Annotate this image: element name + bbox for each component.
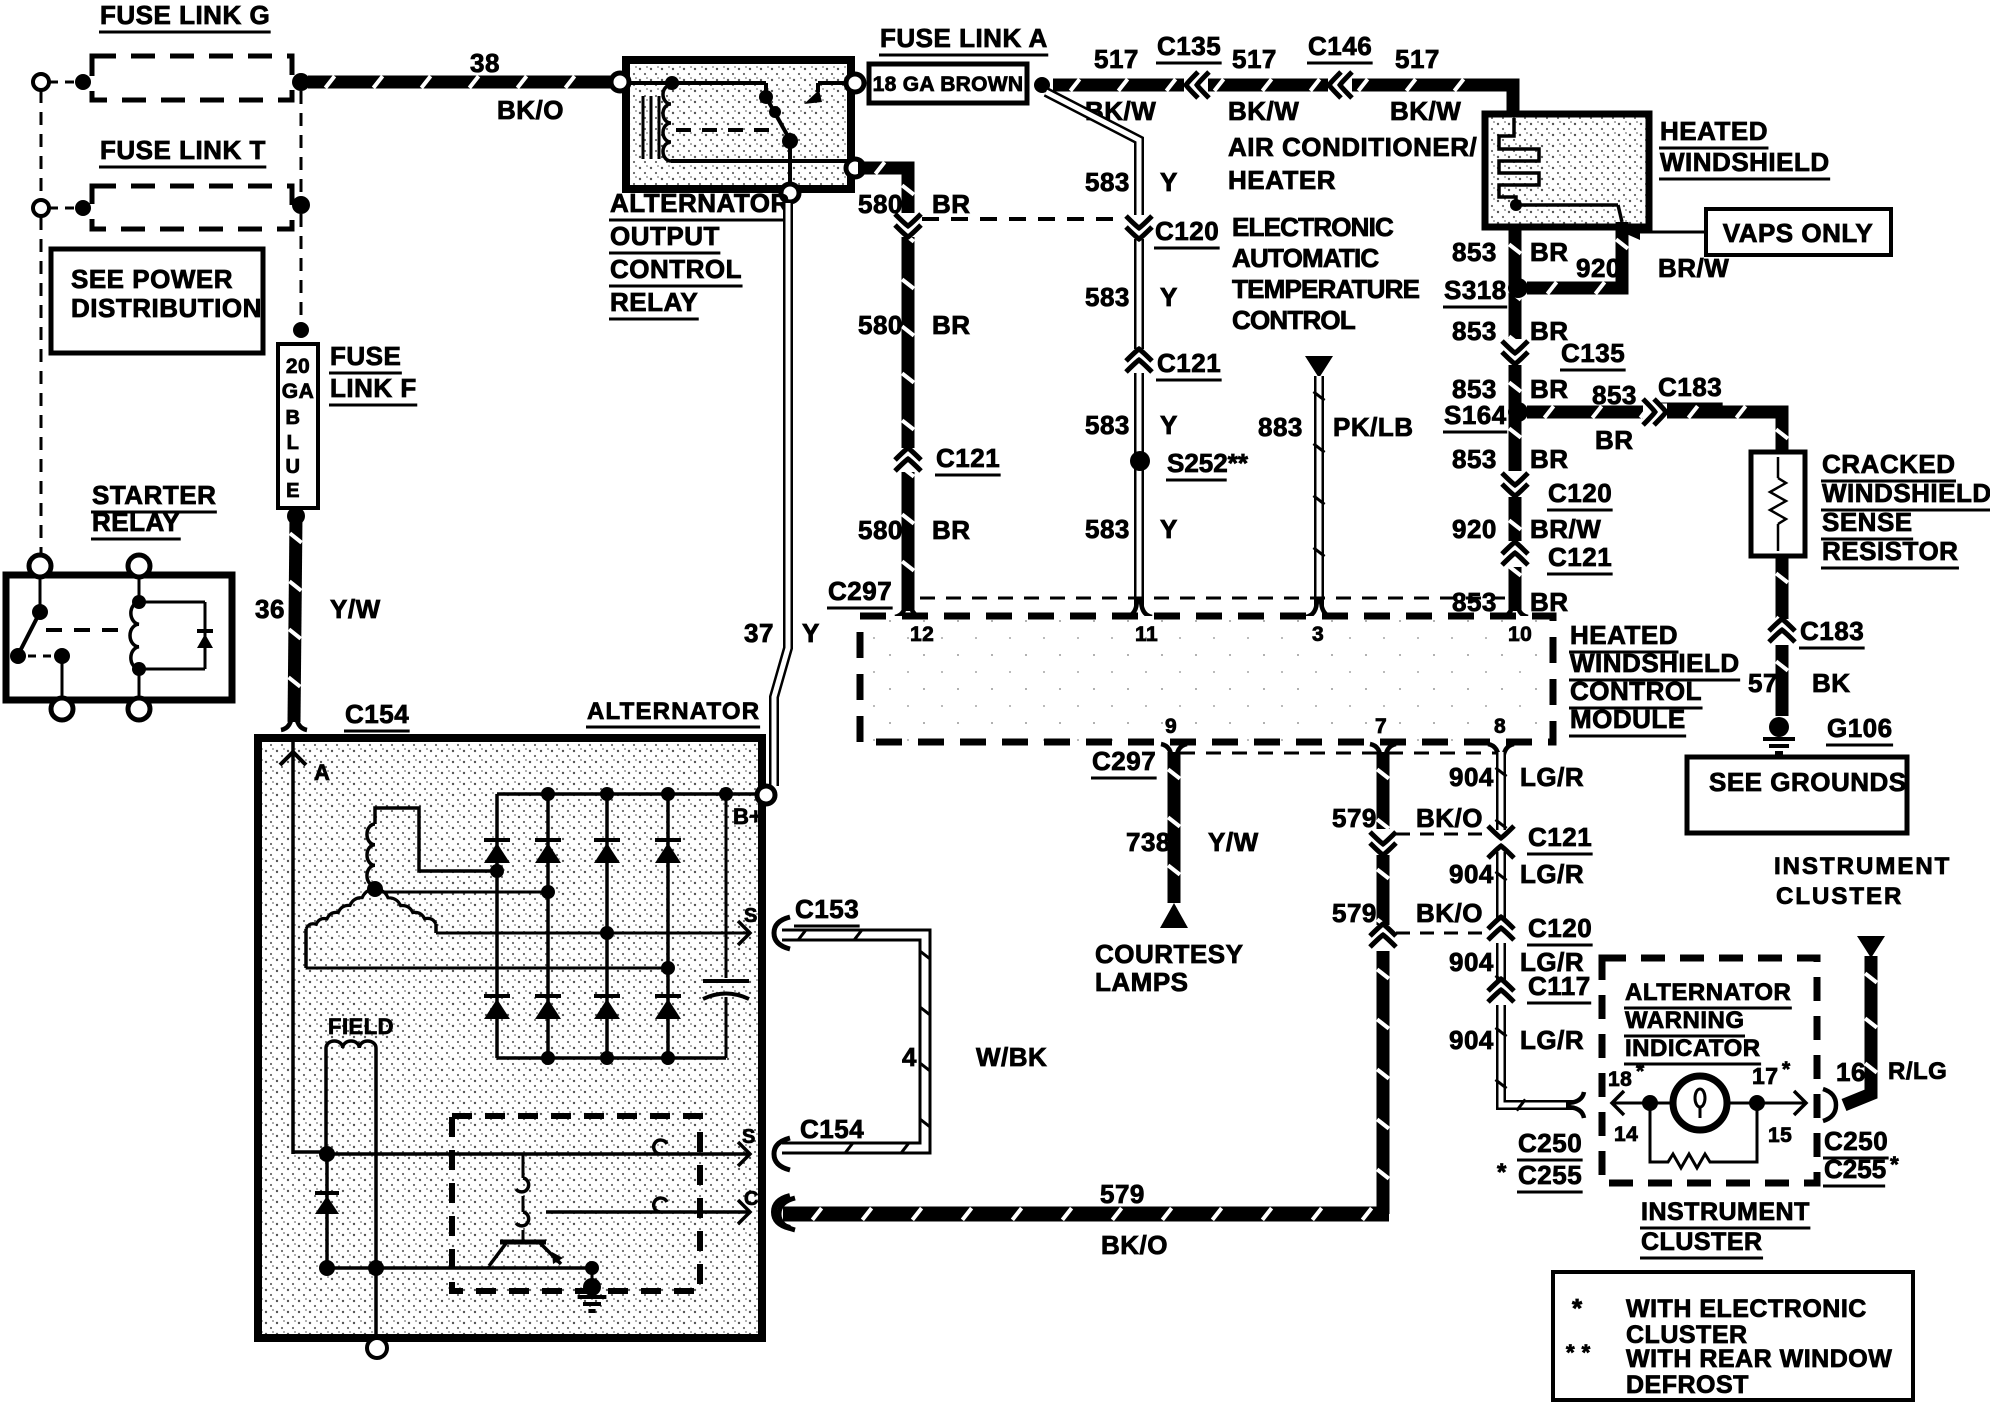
svg-text:20: 20 xyxy=(286,355,310,378)
svg-text:WINDSHIELD: WINDSHIELD xyxy=(1570,648,1740,678)
svg-text:883: 883 xyxy=(1258,412,1303,442)
svg-text:738: 738 xyxy=(1126,827,1171,857)
svg-text:CONTROL: CONTROL xyxy=(1570,676,1702,706)
svg-text:*: * xyxy=(1497,1159,1507,1186)
svg-text:COURTESY: COURTESY xyxy=(1095,939,1243,969)
svg-text:AIR CONDITIONER/: AIR CONDITIONER/ xyxy=(1228,132,1477,162)
svg-text:INDICATOR: INDICATOR xyxy=(1625,1035,1761,1062)
svg-text:LINK F: LINK F xyxy=(330,373,417,403)
svg-text:36: 36 xyxy=(255,594,285,624)
svg-text:C121: C121 xyxy=(1548,542,1612,572)
svg-text:LAMPS: LAMPS xyxy=(1095,967,1189,997)
svg-text:LG/R: LG/R xyxy=(1520,1025,1584,1055)
svg-text:BR: BR xyxy=(1595,425,1634,455)
svg-text:904: 904 xyxy=(1449,1025,1494,1055)
svg-text:3: 3 xyxy=(1312,623,1324,646)
svg-text:INSTRUMENT: INSTRUMENT xyxy=(1774,853,1951,880)
svg-text:7: 7 xyxy=(1375,715,1387,738)
svg-text:R/LG: R/LG xyxy=(1888,1058,1947,1085)
svg-text:Y: Y xyxy=(1160,282,1178,312)
svg-text:Y: Y xyxy=(1160,167,1178,197)
svg-text:FUSE LINK G: FUSE LINK G xyxy=(100,0,270,30)
svg-text:Y/W: Y/W xyxy=(330,594,381,624)
svg-text:LG/R: LG/R xyxy=(1520,859,1584,889)
svg-text:RELAY: RELAY xyxy=(92,507,180,537)
svg-text:BK/W: BK/W xyxy=(1228,96,1299,126)
svg-text:ALTERNATOR: ALTERNATOR xyxy=(1625,979,1791,1006)
svg-text:580: 580 xyxy=(858,515,903,545)
svg-text:C153: C153 xyxy=(795,894,859,924)
svg-text:BR: BR xyxy=(1530,444,1569,474)
svg-text:904: 904 xyxy=(1449,762,1494,792)
svg-text:583: 583 xyxy=(1085,410,1130,440)
svg-text:C146: C146 xyxy=(1308,31,1372,61)
svg-text:WITH ELECTRONIC: WITH ELECTRONIC xyxy=(1626,1295,1867,1323)
svg-text:C120: C120 xyxy=(1548,478,1612,508)
svg-text:DEFROST: DEFROST xyxy=(1626,1371,1749,1399)
svg-text:579: 579 xyxy=(1332,803,1377,833)
svg-text:CONTROL: CONTROL xyxy=(610,254,742,284)
svg-text:S252**: S252** xyxy=(1167,448,1249,478)
svg-text:853: 853 xyxy=(1452,237,1497,267)
svg-text:579: 579 xyxy=(1332,898,1377,928)
svg-text:C250: C250 xyxy=(1824,1126,1888,1156)
svg-text:C121: C121 xyxy=(936,443,1000,473)
svg-text:C135: C135 xyxy=(1157,31,1221,61)
svg-text:CLUSTER: CLUSTER xyxy=(1641,1228,1763,1256)
svg-text:15: 15 xyxy=(1768,1124,1792,1147)
svg-text:37: 37 xyxy=(744,618,774,648)
svg-text:ALTERNATOR: ALTERNATOR xyxy=(610,188,790,218)
svg-text:C255: C255 xyxy=(1518,1160,1582,1190)
svg-text:Y: Y xyxy=(1160,514,1178,544)
svg-text:C183: C183 xyxy=(1800,616,1864,646)
svg-text:583: 583 xyxy=(1085,167,1130,197)
svg-text:STARTER: STARTER xyxy=(92,480,216,510)
svg-text:579: 579 xyxy=(1100,1179,1145,1209)
svg-text:C135: C135 xyxy=(1561,338,1625,368)
svg-text:9: 9 xyxy=(1165,715,1177,738)
svg-text:FUSE: FUSE xyxy=(330,341,401,371)
svg-text:14: 14 xyxy=(1614,1123,1638,1146)
svg-text:*: * xyxy=(1636,1060,1645,1083)
svg-text:BK/O: BK/O xyxy=(1101,1230,1168,1260)
svg-text:PK/LB: PK/LB xyxy=(1333,412,1414,442)
svg-text:S: S xyxy=(742,1126,756,1148)
svg-text:BR: BR xyxy=(1530,374,1569,404)
svg-text:904: 904 xyxy=(1449,947,1494,977)
svg-text:C120: C120 xyxy=(1155,216,1219,246)
svg-text:18 GA BROWN: 18 GA BROWN xyxy=(873,73,1024,96)
svg-text:ELECTRONIC: ELECTRONIC xyxy=(1232,212,1394,242)
svg-text:LG/R: LG/R xyxy=(1520,762,1584,792)
svg-text:OUTPUT: OUTPUT xyxy=(610,221,720,251)
svg-text:RESISTOR: RESISTOR xyxy=(1822,536,1958,566)
svg-text:HEATER: HEATER xyxy=(1228,165,1336,195)
svg-text:BK/O: BK/O xyxy=(497,95,564,125)
svg-text:C154: C154 xyxy=(800,1114,864,1144)
svg-text:B: B xyxy=(286,407,301,429)
svg-text:L: L xyxy=(287,432,300,454)
svg-text:Y: Y xyxy=(802,618,820,648)
svg-text:C183: C183 xyxy=(1658,372,1722,402)
svg-text:B+: B+ xyxy=(733,804,763,829)
svg-text:BR/W: BR/W xyxy=(1658,253,1729,283)
svg-text:8: 8 xyxy=(1494,715,1506,738)
svg-text:ALTERNATOR: ALTERNATOR xyxy=(587,698,760,725)
svg-text:853: 853 xyxy=(1452,316,1497,346)
svg-text:C250: C250 xyxy=(1518,1128,1582,1158)
svg-text:C297: C297 xyxy=(828,576,892,606)
svg-text:Y: Y xyxy=(1160,410,1178,440)
svg-text:C255: C255 xyxy=(1824,1154,1886,1184)
svg-text:* *: * * xyxy=(1566,1340,1591,1365)
svg-text:WINDSHIELD: WINDSHIELD xyxy=(1822,478,1990,508)
svg-text:580: 580 xyxy=(858,310,903,340)
svg-text:*: * xyxy=(1890,1152,1899,1177)
svg-text:C117: C117 xyxy=(1528,971,1591,1001)
svg-text:WARNING: WARNING xyxy=(1625,1007,1745,1034)
svg-text:HEATED: HEATED xyxy=(1570,620,1678,650)
svg-text:C120: C120 xyxy=(1528,913,1592,943)
svg-text:BK/O: BK/O xyxy=(1416,898,1483,928)
svg-text:U: U xyxy=(286,456,301,478)
svg-text:BR: BR xyxy=(932,189,971,219)
svg-text:SEE GROUNDS: SEE GROUNDS xyxy=(1709,767,1907,797)
svg-text:BK: BK xyxy=(1812,668,1851,698)
svg-text:57: 57 xyxy=(1748,668,1778,698)
svg-text:WINDSHIELD: WINDSHIELD xyxy=(1660,147,1830,177)
svg-text:517: 517 xyxy=(1094,44,1139,74)
svg-text:C: C xyxy=(744,1188,759,1210)
svg-text:BK/W: BK/W xyxy=(1390,96,1461,126)
svg-text:S: S xyxy=(744,905,758,927)
svg-text:FUSE LINK T: FUSE LINK T xyxy=(100,135,266,165)
svg-text:*: * xyxy=(1782,1058,1791,1081)
svg-text:SENSE: SENSE xyxy=(1822,507,1913,537)
svg-text:17: 17 xyxy=(1752,1063,1779,1089)
svg-text:BR: BR xyxy=(932,515,971,545)
svg-text:A: A xyxy=(314,760,330,785)
svg-text:16: 16 xyxy=(1836,1057,1866,1087)
svg-text:C297: C297 xyxy=(1092,746,1156,776)
svg-text:RELAY: RELAY xyxy=(610,287,698,317)
svg-text:853: 853 xyxy=(1452,444,1497,474)
svg-text:FIELD: FIELD xyxy=(328,1014,394,1039)
svg-text:4: 4 xyxy=(902,1042,917,1072)
svg-text:INSTRUMENT: INSTRUMENT xyxy=(1641,1198,1810,1226)
svg-text:BR: BR xyxy=(932,310,971,340)
svg-text:E: E xyxy=(286,480,300,502)
svg-text:*: * xyxy=(1572,1293,1583,1323)
svg-text:AUTOMATIC: AUTOMATIC xyxy=(1232,243,1379,273)
svg-text:C121: C121 xyxy=(1528,822,1592,852)
svg-text:SEE POWER: SEE POWER xyxy=(71,264,233,294)
svg-text:BR: BR xyxy=(1530,237,1569,267)
svg-text:MODULE: MODULE xyxy=(1570,704,1686,734)
svg-text:G106: G106 xyxy=(1827,713,1893,743)
svg-text:Y/W: Y/W xyxy=(1208,827,1259,857)
svg-text:CLUSTER: CLUSTER xyxy=(1776,883,1903,910)
svg-text:904: 904 xyxy=(1449,859,1494,889)
svg-text:920: 920 xyxy=(1452,514,1497,544)
svg-text:12: 12 xyxy=(910,623,934,646)
svg-text:11: 11 xyxy=(1135,623,1158,646)
svg-text:TEMPERATURE: TEMPERATURE xyxy=(1232,274,1420,304)
svg-text:920: 920 xyxy=(1576,253,1621,283)
svg-text:517: 517 xyxy=(1232,44,1277,74)
svg-text:10: 10 xyxy=(1508,623,1532,646)
svg-text:FUSE LINK A: FUSE LINK A xyxy=(880,23,1048,53)
svg-text:BR/W: BR/W xyxy=(1530,514,1601,544)
svg-text:CRACKED: CRACKED xyxy=(1822,449,1956,479)
svg-text:S318: S318 xyxy=(1444,275,1507,305)
svg-text:18: 18 xyxy=(1608,1068,1632,1091)
svg-text:C154: C154 xyxy=(345,699,409,729)
svg-text:VAPS ONLY: VAPS ONLY xyxy=(1723,218,1873,248)
svg-text:GA: GA xyxy=(282,380,315,403)
svg-text:517: 517 xyxy=(1395,44,1440,74)
svg-text:HEATED: HEATED xyxy=(1660,116,1768,146)
svg-text:583: 583 xyxy=(1085,282,1130,312)
svg-text:C121: C121 xyxy=(1157,348,1221,378)
svg-text:CONTROL: CONTROL xyxy=(1232,305,1356,335)
svg-text:W/BK: W/BK xyxy=(976,1042,1047,1072)
svg-text:583: 583 xyxy=(1085,514,1130,544)
svg-text:WITH REAR WINDOW: WITH REAR WINDOW xyxy=(1626,1345,1892,1373)
svg-text:38: 38 xyxy=(470,48,500,78)
svg-text:BK/O: BK/O xyxy=(1416,803,1483,833)
svg-text:DISTRIBUTION: DISTRIBUTION xyxy=(71,293,262,323)
svg-text:S164: S164 xyxy=(1444,400,1507,430)
